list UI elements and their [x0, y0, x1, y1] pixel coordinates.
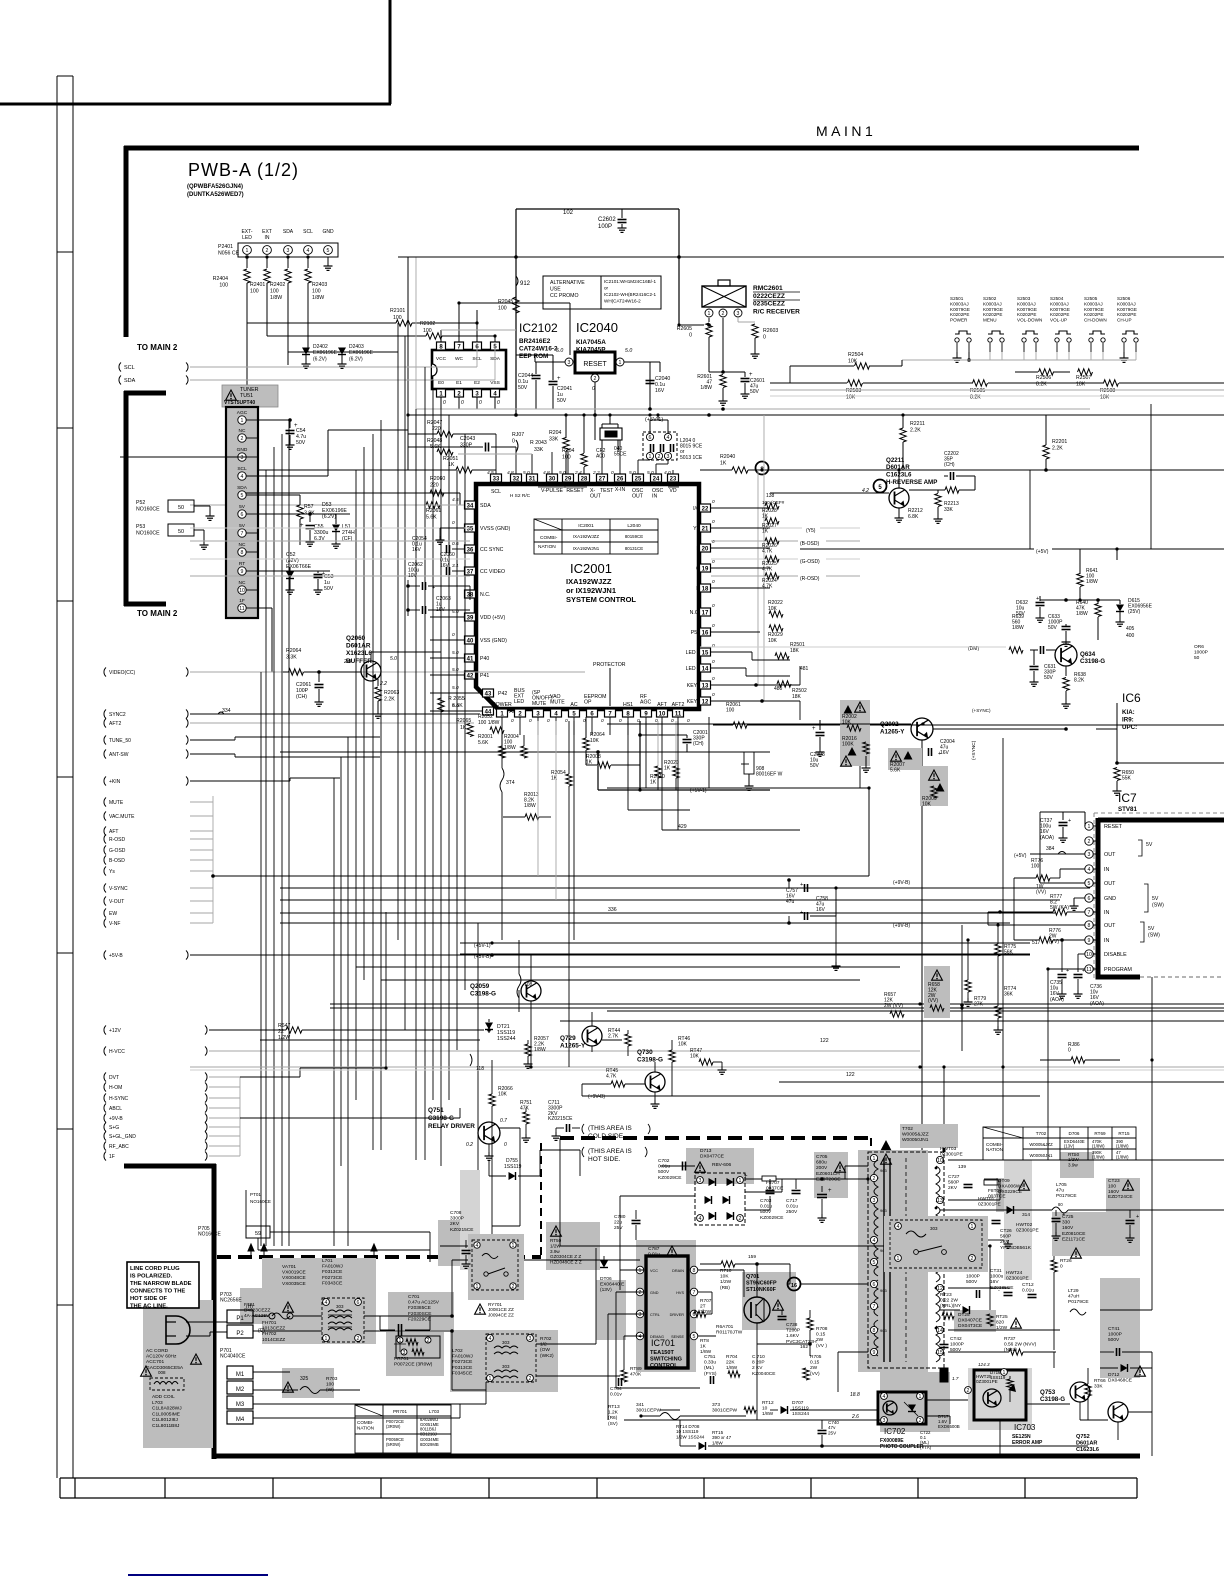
ground: [956, 354, 958, 358]
svg-text:(13V): (13V): [1064, 1144, 1075, 1149]
svg-text:517: 517: [1032, 940, 1041, 946]
svg-text:1/2W: 1/2W: [720, 1279, 732, 1285]
svg-text:USE: USE: [550, 286, 561, 292]
svg-text:S2505: S2505: [1084, 296, 1098, 301]
svg-text:37: 37: [467, 569, 474, 575]
svg-text:1: 1: [708, 311, 711, 317]
pin 1 IC701: [636, 1266, 644, 1274]
svg-text:1.6KV: 1.6KV: [786, 1333, 800, 1339]
diode D2402: [287, 352, 289, 365]
svg-text:AFT: AFT: [109, 829, 118, 835]
svg-text:VAC.MUTE: VAC.MUTE: [109, 814, 135, 820]
svg-text:5.0: 5.0: [629, 470, 636, 476]
svg-text:(+5V-B): (+5V-B): [474, 954, 491, 960]
node +5V-B: [104, 951, 106, 960]
diode D712: [1121, 1364, 1128, 1372]
pin 6 IC2001: [587, 709, 598, 717]
svg-text:A00: A00: [596, 454, 605, 460]
svg-text:CH-DOWN: CH-DOWN: [1084, 318, 1107, 323]
svg-text:5V: 5V: [1146, 842, 1153, 848]
node EW: [104, 909, 106, 918]
svg-text:S2501: S2501: [950, 296, 964, 301]
svg-text:11: 11: [239, 606, 244, 612]
svg-text:K0202PE: K0202PE: [1117, 312, 1136, 317]
junction dots: [406, 413, 409, 416]
svg-text:R2506: R2506: [1036, 375, 1051, 381]
svg-text:(AOA): (AOA): [1040, 835, 1054, 841]
svg-text:R57: R57: [304, 504, 314, 510]
svg-text:4.8: 4.8: [507, 470, 514, 476]
svg-text:(THIS AREA IS: (THIS AREA IS: [588, 1125, 632, 1132]
svg-text:2.2: 2.2: [379, 681, 387, 687]
node V-OUT: [104, 897, 106, 906]
svg-text:C3198-G: C3198-G: [1040, 1396, 1065, 1403]
resistor R2603: [737, 318, 739, 322]
svg-text:VX0019CE: VX0019CE: [282, 1270, 306, 1276]
svg-text:KZ0029CE: KZ0029CE: [658, 1175, 681, 1181]
svg-text:RMC2601: RMC2601: [753, 285, 783, 292]
svg-text:IXA192WJN1: IXA192WJN1: [573, 546, 600, 551]
svg-text:220: 220: [430, 482, 439, 488]
wire: [257, 1238, 259, 1250]
connector M1-M4: [227, 1366, 253, 1379]
svg-text:SYSTEM CONTROL: SYSTEM CONTROL: [566, 595, 636, 604]
wire: [956, 352, 958, 354]
svg-text:100: 100: [498, 305, 507, 311]
pin 29 IC2001: [563, 474, 574, 482]
svg-text:SCL: SCL: [303, 229, 313, 235]
svg-text:RT12: RT12: [762, 1400, 774, 1406]
svg-text:+: +: [812, 726, 816, 732]
svg-text:M2: M2: [236, 1387, 245, 1393]
svg-text:RELAY DRIVER: RELAY DRIVER: [428, 1123, 475, 1130]
svg-text:R 2055: R 2055: [448, 696, 465, 702]
svg-text:5.6K: 5.6K: [430, 444, 441, 450]
resistor R2401: [266, 257, 268, 268]
pin 5 IC2102: [491, 342, 500, 350]
svg-text:K0202PE: K0202PE: [1017, 312, 1036, 317]
svg-text:T200P: T200P: [786, 1328, 800, 1334]
svg-text:R-OSD: R-OSD: [109, 837, 126, 843]
svg-text:560P: 560P: [948, 1180, 959, 1186]
svg-text:C3198-G: C3198-G: [428, 1115, 454, 1122]
resistor R2404: [246, 257, 248, 268]
svg-text:S+GL_GND: S+GL_GND: [109, 1134, 136, 1140]
pin 7 IC750: [1085, 908, 1093, 916]
svg-text:6: 6: [1088, 896, 1091, 902]
svg-text:50V: 50V: [750, 389, 760, 395]
svg-text:R6A701: R6A701: [716, 1324, 734, 1330]
svg-text:47uH: 47uH: [1068, 1294, 1080, 1300]
svg-text:25V: 25V: [614, 1225, 623, 1231]
svg-text:CONTROL: CONTROL: [650, 1363, 678, 1369]
node 16: [788, 1278, 801, 1291]
svg-text:K0202PE: K0202PE: [950, 312, 969, 317]
svg-text:33K: 33K: [944, 507, 954, 513]
svg-text:3300P: 3300P: [450, 1216, 464, 1222]
svg-text:25V: 25V: [828, 1430, 837, 1435]
table combination T702: [983, 1127, 1136, 1160]
svg-text:50V: 50V: [324, 586, 334, 592]
svg-text:ALTERNATIVE: ALTERNATIVE: [550, 280, 585, 286]
wire: [501, 717, 503, 735]
svg-text:19: 19: [702, 566, 709, 572]
svg-text:IN: IN: [1104, 867, 1109, 873]
svg-text:1: 1: [739, 1178, 742, 1184]
svg-text:PWB-A (1/2): PWB-A (1/2): [188, 160, 299, 180]
wire: [209, 1050, 920, 1052]
svg-text:5.0: 5.0: [647, 470, 654, 476]
svg-text:40: 40: [467, 638, 474, 644]
wire: [940, 1209, 1052, 1211]
wire: [1029, 470, 1031, 549]
svg-text:500V: 500V: [966, 1279, 978, 1285]
svg-text:Q753: Q753: [1040, 1389, 1056, 1396]
svg-text:+12V: +12V: [109, 1028, 121, 1034]
svg-text:11: 11: [675, 711, 682, 717]
svg-text:21: 21: [702, 526, 709, 532]
diode D2403: [338, 348, 346, 355]
svg-text:1000u: 1000u: [990, 1274, 1004, 1280]
svg-text:T702: T702: [1036, 1131, 1047, 1136]
svg-text:SCL: SCL: [237, 466, 247, 472]
node AFT2: [104, 719, 106, 728]
svg-text:R2022: R2022: [768, 600, 783, 606]
svg-text:R704: R704: [726, 1354, 738, 1360]
wire: [1040, 882, 1085, 884]
svg-text:6: 6: [357, 1300, 360, 1306]
svg-text:MAIN1: MAIN1: [816, 123, 876, 139]
svg-text:50V: 50V: [1044, 675, 1054, 681]
pin 24 IC2001: [651, 474, 662, 482]
svg-text:5: 5: [1088, 881, 1091, 887]
node +9V-B: [104, 1114, 106, 1123]
svg-text:UPC:: UPC:: [1122, 724, 1137, 731]
svg-text:K0079GE: K0079GE: [1117, 307, 1137, 312]
svg-text:(AOA): (AOA): [1090, 1001, 1104, 1007]
svg-text:159: 159: [748, 1254, 756, 1260]
svg-text:1: 1: [246, 248, 249, 254]
svg-text:5013 1CE: 5013 1CE: [680, 455, 703, 461]
diode DT21: [485, 1023, 493, 1030]
pin 10 IC2001: [657, 709, 668, 717]
svg-text:H-REVERSE AMP: H-REVERSE AMP: [886, 479, 937, 486]
svg-text:K0003AJ: K0003AJ: [1084, 301, 1103, 306]
svg-text:DX04T3CE: DX04T3CE: [958, 1323, 982, 1329]
svg-text:10K: 10K: [922, 801, 932, 807]
svg-text:H-OM: H-OM: [109, 1085, 122, 1091]
svg-text:(3R0W): (3R0W): [386, 1424, 401, 1429]
svg-text:2: 2: [919, 1418, 922, 1424]
svg-text:314: 314: [1022, 1212, 1030, 1218]
svg-text:4.5: 4.5: [487, 470, 494, 476]
svg-text:2: 2: [739, 1216, 742, 1222]
svg-text:F0273CE: F0273CE: [452, 1359, 472, 1365]
resistor R750 gray: [551, 1226, 562, 1236]
svg-text:F0313CE: F0313CE: [452, 1365, 472, 1371]
svg-text:4.0: 4.0: [664, 470, 671, 476]
svg-text:OUT: OUT: [632, 494, 644, 500]
svg-text:3001CEPW: 3001CEPW: [712, 1408, 738, 1414]
svg-text:2KV: 2KV: [948, 1185, 958, 1191]
svg-text:481: 481: [800, 666, 809, 672]
svg-text:Q751: Q751: [428, 1107, 444, 1114]
svg-text:VIDEO(CC): VIDEO(CC): [109, 670, 135, 676]
svg-text:1/8W: 1/8W: [700, 385, 712, 391]
svg-text:(+5V-1): (+5V-1): [690, 788, 707, 794]
svg-text:HS1: HS1: [623, 702, 633, 708]
svg-text:YS: YS: [693, 526, 700, 532]
svg-text:C708: C708: [450, 1210, 462, 1216]
svg-text:0Z3001PE: 0Z3001PE: [1016, 1228, 1039, 1234]
svg-text:(5R0W): (5R0W): [386, 1442, 401, 1447]
svg-text:R2001: R2001: [478, 734, 493, 740]
svg-text:2W (VV): 2W (VV): [884, 1003, 903, 1009]
svg-text:160V: 160V: [1062, 1225, 1074, 1231]
svg-text:10V: 10V: [408, 573, 418, 579]
svg-text:R2060: R2060: [430, 476, 445, 482]
tuner TU51 body tab: [232, 399, 252, 409]
svg-text:0222CEZZ: 0222CEZZ: [753, 293, 785, 300]
resistor R2505: [973, 380, 988, 386]
svg-text:K0003AJ: K0003AJ: [1117, 301, 1136, 306]
svg-text:100: 100: [270, 288, 279, 294]
node SDA: [119, 376, 121, 385]
svg-text:5V: 5V: [1152, 896, 1159, 902]
svg-text:10: 10: [937, 1158, 943, 1164]
svg-text:1: 1: [476, 1284, 479, 1290]
svg-text:100: 100: [562, 454, 571, 460]
svg-text:+: +: [1068, 818, 1071, 824]
IC U703 error amp: [974, 1370, 1026, 1420]
svg-text:560P: 560P: [1000, 1234, 1011, 1240]
svg-text:CTRL: CTRL: [650, 1313, 660, 1317]
svg-text:3: 3: [667, 454, 670, 460]
svg-text:8D1218J: 8D1218J: [420, 1431, 437, 1436]
resistor R57: [297, 505, 303, 519]
svg-text:16V: 16V: [990, 1279, 999, 1285]
svg-text:303: 303: [930, 1226, 938, 1231]
svg-text:(R6): (R6): [608, 1415, 618, 1421]
svg-text:ADD COIL: ADD COIL: [152, 1394, 175, 1400]
svg-text:0: 0: [712, 623, 715, 629]
svg-text:P40: P40: [480, 656, 489, 662]
svg-text:CC PROMO: CC PROMO: [550, 293, 579, 299]
svg-text:1: 1: [1088, 824, 1091, 830]
svg-text:1: 1: [873, 1156, 876, 1162]
svg-text:0: 0: [1060, 1264, 1063, 1270]
svg-text:1/2W: 1/2W: [550, 1243, 561, 1248]
svg-text:2.4: 2.4: [574, 470, 582, 476]
svg-text:33: 33: [493, 476, 500, 482]
svg-text:RESET: RESET: [566, 488, 584, 494]
svg-text:RT13: RT13: [608, 1404, 620, 1410]
svg-text:HZD048CE Z Z: HZD048CE Z Z: [550, 1260, 582, 1265]
svg-text:COMBI-: COMBI-: [540, 535, 558, 541]
pin 13 IC2001: [700, 681, 711, 689]
svg-text:0: 0: [712, 559, 715, 565]
svg-text:SDA: SDA: [283, 229, 294, 235]
svg-text:N056 CE: N056 CE: [218, 250, 240, 256]
svg-text:3.9w: 3.9w: [550, 1249, 560, 1254]
pin 9 IC2001: [641, 709, 652, 717]
svg-text:(+SYNC): (+SYNC): [971, 740, 977, 760]
pin 4 IC2102: [491, 389, 500, 397]
svg-text:EZDT24CE: EZDT24CE: [1108, 1194, 1133, 1200]
svg-text:7: 7: [873, 1304, 876, 1310]
svg-text:0: 0: [611, 470, 614, 476]
svg-text:ABCL: ABCL: [109, 1106, 122, 1112]
svg-text:41: 41: [467, 656, 474, 662]
svg-text:10K: 10K: [848, 358, 858, 364]
svg-text:(6.2V): (6.2V): [349, 356, 363, 362]
wire: [535, 361, 565, 363]
svg-text:4.7K: 4.7K: [606, 1073, 617, 1079]
svg-text:HWT02: HWT02: [1016, 1222, 1033, 1228]
svg-text:22: 22: [702, 506, 709, 512]
svg-text:1: 1: [639, 1268, 642, 1274]
svg-text:33K: 33K: [549, 436, 559, 442]
svg-text:R2052: R2052: [478, 714, 493, 720]
svg-text:0: 0: [529, 718, 532, 724]
pin 26 IC2001: [615, 474, 626, 482]
svg-text:30: 30: [549, 476, 556, 482]
pin 8 IC2102: [437, 342, 446, 350]
pin 42 IC2001: [465, 671, 476, 679]
svg-text:47u: 47u: [1056, 1188, 1064, 1194]
svg-text:IC701: IC701: [651, 1338, 675, 1348]
svg-text:H S2 R/C: H S2 R/C: [510, 493, 531, 499]
svg-text:20: 20: [702, 546, 709, 552]
svg-text:5.0: 5.0: [523, 470, 530, 476]
svg-text:2: 2: [967, 1388, 970, 1394]
svg-text:R2212: R2212: [908, 508, 923, 514]
svg-text:3T4: 3T4: [506, 780, 515, 786]
svg-text:384: 384: [1046, 846, 1055, 852]
svg-text:K0079GE: K0079GE: [983, 307, 1003, 312]
svg-text:0: 0: [712, 499, 715, 505]
svg-text:12: 12: [937, 1286, 943, 1292]
capacitor C2044: [532, 375, 541, 377]
svg-text:(13V): (13V): [600, 1287, 612, 1293]
svg-text:Q2211: Q2211: [886, 457, 905, 464]
svg-text:R705: R705: [810, 1354, 822, 1360]
svg-text:EZ1171CE: EZ1171CE: [1062, 1236, 1085, 1242]
pin 1 IC2001: [497, 709, 508, 717]
svg-text:16V: 16V: [655, 388, 665, 394]
svg-text:LED 2: LED 2: [686, 650, 701, 656]
pin 1 T702: [870, 1154, 877, 1161]
svg-text:3: 3: [287, 248, 290, 254]
svg-text:341: 341: [636, 1402, 644, 1408]
svg-text:2: 2: [873, 1176, 876, 1182]
svg-text:R2401: R2401: [250, 282, 265, 288]
svg-text:C 710: C 710: [752, 1354, 765, 1360]
svg-text:50V: 50V: [1048, 625, 1058, 631]
svg-text:IC2001: IC2001: [578, 523, 594, 529]
svg-text:S2502: S2502: [983, 296, 997, 301]
svg-text:RF_ABC: RF_ABC: [109, 1144, 129, 1150]
svg-text:OUT: OUT: [1104, 881, 1116, 887]
svg-text:(NRL)(NY: (NRL)(NY: [940, 1303, 962, 1309]
svg-text:5: 5: [693, 1334, 696, 1340]
svg-text:(OW: (OW: [540, 1347, 550, 1353]
svg-text:RT25: RT25: [996, 1314, 1008, 1320]
svg-text:CC SYNC: CC SYNC: [480, 547, 504, 553]
svg-text:80016EF W: 80016EF W: [756, 772, 783, 778]
svg-text:4: 4: [325, 1300, 328, 1306]
svg-text:ST9NC60FP: ST9NC60FP: [746, 1280, 777, 1286]
wire: [516, 208, 679, 210]
svg-text:R2040: R2040: [720, 454, 735, 460]
svg-text:KEY1: KEY1: [687, 699, 700, 705]
wire bus horizontals: [662, 829, 800, 831]
relay RY701 coil: [468, 1234, 524, 1300]
svg-text:2KV: 2KV: [450, 1221, 460, 1227]
svg-text:2: 2: [594, 376, 597, 382]
svg-text:D706: D706: [1069, 1131, 1080, 1136]
svg-text:K0202PE: K0202PE: [1084, 312, 1103, 317]
svg-text:R2102: R2102: [420, 321, 435, 327]
node AFT: [104, 827, 106, 836]
resistor R2503: [848, 380, 863, 386]
wire: [1116, 549, 1118, 560]
svg-text:1K: 1K: [720, 460, 727, 466]
svg-text:10: 10: [1086, 952, 1092, 958]
node VAC.MUTE: [104, 812, 106, 821]
svg-text:W0005&JZZ: W0005&JZZ: [902, 1132, 929, 1138]
svg-text:2: 2: [529, 1376, 532, 1382]
svg-text:AGC: AGC: [640, 700, 651, 706]
svg-text:13: 13: [702, 683, 709, 689]
svg-text:33K: 33K: [1094, 1384, 1103, 1390]
svg-text:R707: R707: [700, 1298, 712, 1304]
svg-text:IC2001: IC2001: [570, 561, 612, 576]
svg-text:EX06196E: EX06196E: [313, 350, 338, 356]
wire: [654, 1092, 656, 1100]
svg-text:R710: R710: [720, 1268, 732, 1274]
svg-text:AC120V 60Hz: AC120V 60Hz: [146, 1354, 177, 1360]
svg-text:M1: M1: [236, 1372, 245, 1378]
svg-text:3001CEPW: 3001CEPW: [636, 1408, 662, 1414]
svg-text:50: 50: [178, 505, 184, 511]
svg-text:162: 162: [800, 1344, 808, 1350]
svg-text:400: 400: [1126, 633, 1135, 639]
transformer L701 sym: [322, 1298, 364, 1342]
svg-text:NATION: NATION: [986, 1147, 1003, 1152]
ground: [327, 257, 329, 262]
svg-text:R 2043: R 2043: [530, 440, 547, 446]
svg-text:100 1/8W: 100 1/8W: [478, 720, 500, 726]
svg-text:0: 0: [712, 659, 715, 665]
svg-text:6: 6: [649, 435, 652, 441]
svg-text:2: 2: [1088, 839, 1091, 845]
svg-text:DRAIN: DRAIN: [672, 1269, 684, 1273]
node SYNC2: [104, 710, 106, 719]
svg-text:80: 80: [1058, 1202, 1063, 1207]
svg-text:160V: 160V: [1108, 1189, 1120, 1195]
svg-text:0: 0: [712, 692, 715, 698]
svg-text:X-IN: X-IN: [615, 487, 626, 493]
svg-text:NO160CE: NO160CE: [198, 1232, 221, 1238]
svg-text:C3198-G: C3198-G: [470, 991, 496, 998]
svg-text:R2213: R2213: [944, 501, 959, 507]
svg-text:K0202PE: K0202PE: [1050, 312, 1069, 317]
svg-text:2: 2: [427, 1338, 430, 1344]
svg-text:3: 3: [873, 1198, 876, 1204]
svg-text:R2508: R2508: [1100, 388, 1115, 394]
pin 3 IC701: [636, 1310, 644, 1318]
